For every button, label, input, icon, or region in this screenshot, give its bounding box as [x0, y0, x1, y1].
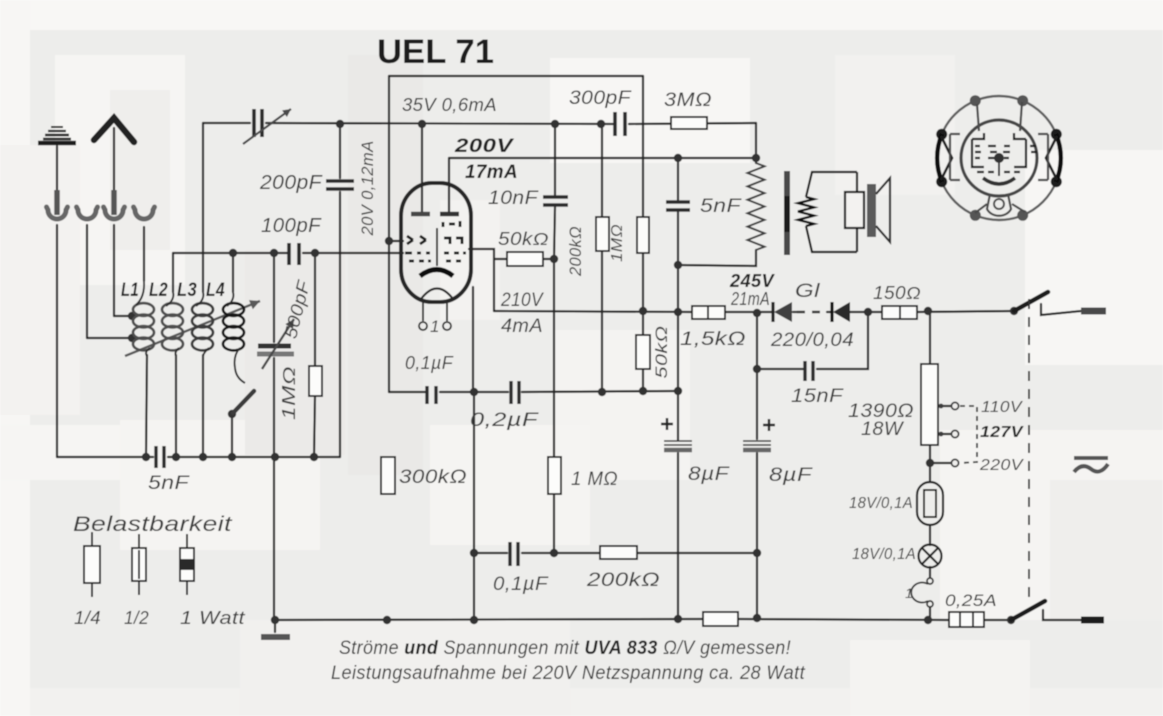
svg-text:5nF: 5nF — [148, 473, 190, 494]
svg-text:110V: 110V — [981, 399, 1023, 416]
svg-text:1: 1 — [430, 317, 440, 336]
svg-text:300pF: 300pF — [569, 88, 632, 109]
svg-text:L4: L4 — [206, 280, 225, 301]
svg-text:0,25A: 0,25A — [945, 591, 997, 610]
svg-text:1MΩ: 1MΩ — [609, 224, 626, 262]
svg-text:8µF: 8µF — [769, 465, 813, 486]
svg-text:UEL 71: UEL 71 — [377, 33, 494, 71]
svg-text:50kΩ: 50kΩ — [498, 229, 549, 249]
svg-text:10nF: 10nF — [488, 188, 539, 209]
svg-text:150Ω: 150Ω — [873, 283, 921, 303]
svg-text:L1: L1 — [121, 280, 139, 301]
svg-text:18V/0,1A: 18V/0,1A — [849, 495, 913, 512]
svg-text:0,2µF: 0,2µF — [470, 410, 539, 431]
svg-text:4mA: 4mA — [501, 316, 543, 337]
svg-text:Leistungsaufnahme bei 220V Net: Leistungsaufnahme bei 220V Netzspannung … — [331, 663, 805, 684]
svg-text:0,1µF: 0,1µF — [493, 574, 549, 595]
svg-text:1/4: 1/4 — [74, 608, 101, 628]
svg-text:200kΩ: 200kΩ — [566, 226, 585, 277]
svg-text:L2: L2 — [149, 280, 168, 301]
svg-text:200pF: 200pF — [259, 172, 324, 194]
svg-text:8µF: 8µF — [688, 464, 730, 485]
svg-text:Ströme und Spannungen mit UVA: Ströme und Spannungen mit UVA 833 Ω/V ge… — [339, 638, 791, 659]
svg-text:210V: 210V — [500, 290, 545, 311]
svg-text:220V: 220V — [979, 457, 1024, 474]
svg-text:20V 0,12mA: 20V 0,12mA — [358, 141, 377, 237]
svg-text:Gl: Gl — [795, 281, 820, 302]
svg-text:300kΩ: 300kΩ — [399, 467, 467, 488]
svg-text:3MΩ: 3MΩ — [664, 90, 712, 111]
svg-text:1 Watt: 1 Watt — [180, 608, 246, 628]
svg-text:15nF: 15nF — [791, 386, 844, 407]
svg-text:1MΩ: 1MΩ — [279, 366, 299, 420]
svg-text:100pF: 100pF — [261, 215, 322, 237]
svg-text:220/0,04: 220/0,04 — [770, 330, 854, 351]
svg-text:1 MΩ: 1 MΩ — [571, 469, 618, 490]
svg-text:127V: 127V — [980, 424, 1024, 441]
svg-text:245V: 245V — [729, 271, 776, 291]
svg-text:50kΩ: 50kΩ — [652, 326, 671, 379]
svg-text:18W: 18W — [861, 419, 905, 440]
svg-text:0,1µF: 0,1µF — [405, 353, 454, 373]
svg-text:200V: 200V — [454, 136, 514, 157]
svg-text:1: 1 — [905, 585, 913, 601]
svg-text:18V/0,1A: 18V/0,1A — [852, 546, 916, 563]
svg-text:35V 0,6mA: 35V 0,6mA — [402, 95, 497, 115]
svg-text:21mA: 21mA — [730, 289, 770, 309]
svg-text:17mA: 17mA — [465, 162, 518, 183]
svg-text:5nF: 5nF — [700, 196, 742, 217]
svg-text:1/2: 1/2 — [124, 608, 149, 628]
svg-text:1,5kΩ: 1,5kΩ — [680, 329, 746, 350]
svg-text:L3: L3 — [177, 280, 197, 301]
svg-text:200kΩ: 200kΩ — [586, 570, 660, 591]
svg-text:Belastbarkeit: Belastbarkeit — [73, 513, 233, 536]
